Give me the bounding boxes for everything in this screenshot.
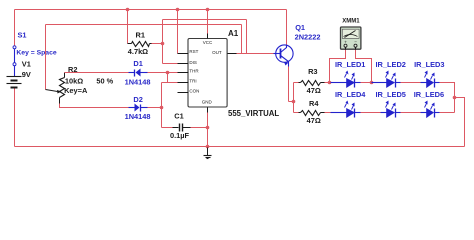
wire RST riser xyxy=(177,10,179,54)
label XMM1 xyxy=(342,19,360,25)
svg-text:555_VIRTUAL: 555_VIRTUAL xyxy=(228,109,279,118)
diode D1 (points left) xyxy=(129,69,148,77)
potentiometer R2 wiper arrow xyxy=(46,90,62,94)
wire R1 to node xyxy=(152,43,163,45)
svg-text:GND: GND xyxy=(202,99,213,104)
wire XMM1 left xyxy=(330,50,346,83)
wire to R3 xyxy=(294,82,299,84)
junction dot R1 top xyxy=(126,8,130,12)
pot R2 bottom lead xyxy=(59,98,61,104)
svg-text:C1: C1 xyxy=(174,111,183,120)
555 pin text VCC xyxy=(203,40,213,45)
svg-text:1N4148: 1N4148 xyxy=(125,112,151,121)
IR_LED5 arrows xyxy=(386,101,396,110)
wire R3R4 vertical xyxy=(293,83,295,113)
wire R3 to LED1 xyxy=(325,82,330,84)
label D2 xyxy=(133,95,142,104)
svg-text:Q1: Q1 xyxy=(295,23,305,32)
svg-text:4.7kΩ: 4.7kΩ xyxy=(128,47,148,56)
svg-text:V1: V1 xyxy=(22,60,31,69)
555 pin stub RST xyxy=(178,53,189,55)
ground symbol xyxy=(204,148,212,159)
wire top VCC rail xyxy=(15,9,287,11)
IR_LED6 arrows xyxy=(425,101,435,110)
555 pin stub OUT xyxy=(228,53,237,55)
wire C top xyxy=(46,24,242,26)
R1 leads xyxy=(128,43,152,45)
wire LED5 to LED6 xyxy=(401,112,421,114)
resistor R4 xyxy=(301,111,321,116)
svg-text:IR_LED1: IR_LED1 xyxy=(335,60,365,69)
resistor R3 xyxy=(301,81,321,86)
junction dot rail join xyxy=(206,145,210,149)
label 10k&#937; xyxy=(65,77,83,86)
svg-text:S1: S1 xyxy=(18,31,27,40)
wire B riser xyxy=(162,20,164,64)
label Key = Space xyxy=(16,50,56,57)
555 pin text GND xyxy=(202,99,213,104)
transistor Q1 xyxy=(274,45,294,67)
wire D1 to THR xyxy=(148,72,178,74)
R3 leads xyxy=(299,82,325,84)
wire S1 top xyxy=(14,10,16,47)
555 pin stub GND xyxy=(207,108,209,113)
wire B down to OUT xyxy=(246,20,248,54)
diode D2 (points right) xyxy=(129,104,148,112)
wire C down to OUT xyxy=(241,25,243,54)
multimeter XMM1 xyxy=(341,27,361,50)
svg-text:50 %: 50 % xyxy=(96,77,113,86)
battery V1 xyxy=(7,77,22,88)
svg-text:IR_LED4: IR_LED4 xyxy=(335,90,366,99)
junction dot THR row xyxy=(166,71,170,75)
label R1 xyxy=(136,31,145,40)
label Q1 xyxy=(295,23,305,32)
label 47ohm R3 xyxy=(307,86,321,95)
LED IR_LED4 xyxy=(331,109,361,118)
555 pin text DIS xyxy=(189,60,197,65)
wire pot bottom to D2 xyxy=(60,104,129,108)
wire to R4 xyxy=(294,112,299,114)
wire XMM1 right xyxy=(356,50,372,83)
LED IR_LED2 xyxy=(372,79,401,88)
junction dot emitter split xyxy=(292,100,296,104)
wire C1 right xyxy=(191,127,208,129)
wire R1 from VCC rail xyxy=(127,10,129,44)
wire B top xyxy=(163,19,247,21)
label D1 xyxy=(133,59,142,68)
wire LED1 to LED2 xyxy=(361,82,372,84)
555 pin text THR xyxy=(189,69,199,74)
svg-text:RST: RST xyxy=(189,49,198,54)
label 1N4148 (D1) xyxy=(125,78,151,87)
svg-text:A1: A1 xyxy=(228,29,239,38)
wire DIS row xyxy=(163,63,178,65)
label C1 xyxy=(174,111,183,120)
wire OUT to base xyxy=(237,53,274,55)
LED IR_LED3 xyxy=(421,79,440,88)
svg-text:TRI: TRI xyxy=(189,78,196,83)
wire bottom ground rail xyxy=(15,146,465,148)
label 47ohm R4 xyxy=(307,116,321,125)
IC 555 timer A1 box xyxy=(188,39,227,108)
svg-text:Key = Space: Key = Space xyxy=(16,50,56,57)
wire TRI to C1 vertical xyxy=(161,83,163,128)
555 pin text CON xyxy=(189,88,199,93)
svg-text:2N2222: 2N2222 xyxy=(295,32,321,41)
wire wiper from node C xyxy=(45,25,47,90)
svg-text:OUT: OUT xyxy=(212,50,222,55)
wire LED2 to LED3 xyxy=(401,82,421,84)
svg-text:IR_LED6: IR_LED6 xyxy=(414,90,444,99)
555 pin text RST xyxy=(189,49,198,54)
potentiometer R2 xyxy=(60,78,65,98)
svg-text:47Ω: 47Ω xyxy=(307,116,321,125)
wire switch to battery xyxy=(14,66,16,77)
label 555_VIRTUAL xyxy=(228,109,279,118)
junction dot R1 right xyxy=(161,42,165,46)
label Key=A xyxy=(64,86,88,95)
label R3 xyxy=(308,67,317,76)
svg-text:THR: THR xyxy=(189,69,199,74)
junction dot VCC riser xyxy=(206,8,210,12)
svg-text:IR_LED3: IR_LED3 xyxy=(414,60,444,69)
555 pin text OUT xyxy=(212,50,222,55)
svg-text:R4: R4 xyxy=(309,99,319,108)
svg-text:47Ω: 47Ω xyxy=(307,86,321,95)
label 0.1uF xyxy=(170,131,190,140)
svg-text:+: + xyxy=(344,39,347,44)
wire VCC riser xyxy=(207,10,209,34)
555 pin stub TRI xyxy=(178,82,189,84)
wire R4 to LED4 xyxy=(325,112,331,114)
LED IR_LED1 xyxy=(331,79,361,88)
svg-text:CON: CON xyxy=(189,88,199,93)
wire D2 to vertical xyxy=(148,107,162,109)
wire emitter jog xyxy=(289,101,294,103)
label IR_LED2 xyxy=(376,60,406,69)
svg-text:9V: 9V xyxy=(22,70,31,79)
wire emitter down xyxy=(288,67,290,102)
svg-text:VCC: VCC xyxy=(203,40,213,45)
wire pot top to D1 xyxy=(65,72,129,74)
wire LED6 to corner xyxy=(440,112,455,114)
wire LED4 to LED5 xyxy=(361,112,381,114)
label A1 xyxy=(228,29,239,38)
svg-text:1N4148: 1N4148 xyxy=(125,78,151,87)
junction dot RST riser xyxy=(176,8,180,12)
svg-text:D2: D2 xyxy=(133,95,142,104)
label IR_LED3 xyxy=(414,60,444,69)
555 pin stub CON xyxy=(178,92,189,94)
wire C1 left xyxy=(162,127,173,129)
svg-text:Key=A: Key=A xyxy=(64,86,88,95)
svg-text:XMM1: XMM1 xyxy=(342,19,360,25)
junction dot C1 join xyxy=(206,126,210,130)
555 pin text TRI xyxy=(189,78,196,83)
label V1 xyxy=(22,60,31,69)
resistor R1 xyxy=(132,42,150,47)
555 pin stub VCC xyxy=(207,34,209,39)
R4 leads xyxy=(299,112,325,114)
IR_LED2 arrows xyxy=(386,71,396,80)
svg-text:DIS: DIS xyxy=(189,60,197,65)
junction dot LED1 anode xyxy=(328,81,332,85)
label R4 xyxy=(309,99,319,108)
IR_LED3 arrows xyxy=(425,71,435,80)
wire GND to rail xyxy=(207,113,209,147)
junction dot XMM1 right xyxy=(370,81,374,85)
IR_LED1 arrows xyxy=(345,71,355,80)
label 9V xyxy=(22,70,31,79)
label 4.7k&#937; xyxy=(128,47,148,56)
svg-text:0.1µF: 0.1µF xyxy=(170,131,190,140)
555 pin stub DIS xyxy=(178,63,189,65)
wire THR jog down xyxy=(167,73,169,83)
svg-text:R3: R3 xyxy=(308,67,317,76)
wire right branch xyxy=(455,98,465,147)
label 1N4148 (D2) xyxy=(125,112,151,121)
label IR_LED5 xyxy=(376,90,406,99)
pot R2 top lead xyxy=(64,73,66,78)
label 50 % xyxy=(96,77,113,86)
LED IR_LED5 xyxy=(381,109,401,118)
label R2 xyxy=(68,65,77,74)
label IR_LED6 xyxy=(414,90,444,99)
555 pin stub THR xyxy=(178,72,189,74)
svg-text:IR_LED2: IR_LED2 xyxy=(376,60,406,69)
label IR_LED1 xyxy=(335,60,365,69)
junction dot right split xyxy=(453,96,457,100)
IR_LED4 arrows xyxy=(345,101,355,110)
svg-text:D1: D1 xyxy=(133,59,142,68)
svg-text:IR_LED5: IR_LED5 xyxy=(376,90,406,99)
wire TRI row xyxy=(162,82,178,84)
LED IR_LED6 xyxy=(421,109,440,118)
wire LED3 to corner xyxy=(440,83,455,113)
svg-text:10kΩ: 10kΩ xyxy=(65,77,83,86)
junction dot D2 row xyxy=(160,106,164,110)
wire battery to ground rail xyxy=(14,89,16,147)
label 2N2222 xyxy=(295,32,321,41)
svg-text:R1: R1 xyxy=(136,31,145,40)
capacitor C1 xyxy=(173,124,191,132)
label IR_LED4 xyxy=(335,90,366,99)
switch S1 xyxy=(13,46,16,66)
label S1 xyxy=(18,31,27,40)
svg-text:−: − xyxy=(354,39,357,44)
wire collector xyxy=(286,10,288,46)
